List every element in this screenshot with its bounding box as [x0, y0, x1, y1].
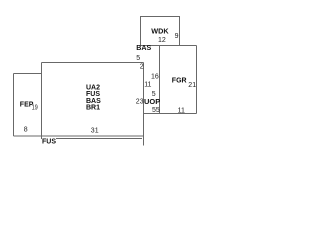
- wall main left: [41, 63, 43, 140]
- svg-text:23: 23: [136, 99, 144, 106]
- wall FGR right: [196, 46, 198, 114]
- wall WDK left: [140, 16, 142, 46]
- svg-text:16: 16: [151, 73, 159, 80]
- svg-text:FUS: FUS: [42, 139, 56, 146]
- svg-text:5: 5: [152, 91, 156, 98]
- svg-text:9: 9: [175, 33, 179, 40]
- svg-text:11: 11: [144, 81, 151, 88]
- wall main top: [42, 62, 144, 64]
- svg-text:BAS: BAS: [136, 45, 151, 52]
- svg-text:21: 21: [188, 82, 196, 89]
- svg-text:UOP: UOP: [144, 99, 161, 106]
- wall main right: [143, 63, 145, 146]
- svg-text:BR1: BR1: [86, 105, 100, 112]
- svg-text:19: 19: [32, 104, 38, 111]
- svg-text:11: 11: [178, 108, 185, 115]
- svg-text:FGR: FGR: [172, 78, 187, 85]
- svg-text:31: 31: [91, 128, 99, 135]
- wall FEP top: [14, 73, 42, 75]
- wall WDK top: [140, 16, 180, 18]
- svg-text:8: 8: [24, 127, 28, 134]
- svg-text:WDK: WDK: [151, 29, 168, 36]
- svg-text:55: 55: [152, 107, 160, 114]
- wall FUS porch line: [56, 138, 142, 140]
- svg-text:2: 2: [140, 64, 144, 71]
- wall FGR / UOP bottom: [144, 113, 197, 115]
- wall FEP left: [13, 74, 15, 137]
- wall WDK right: [179, 16, 181, 46]
- wall FGR left: [159, 46, 161, 114]
- svg-text:5: 5: [136, 55, 140, 62]
- wall main bottom with FEP bottom: [14, 135, 144, 137]
- wall strip top / WDK bottom / FGR top: [140, 45, 197, 47]
- svg-text:12: 12: [158, 37, 166, 44]
